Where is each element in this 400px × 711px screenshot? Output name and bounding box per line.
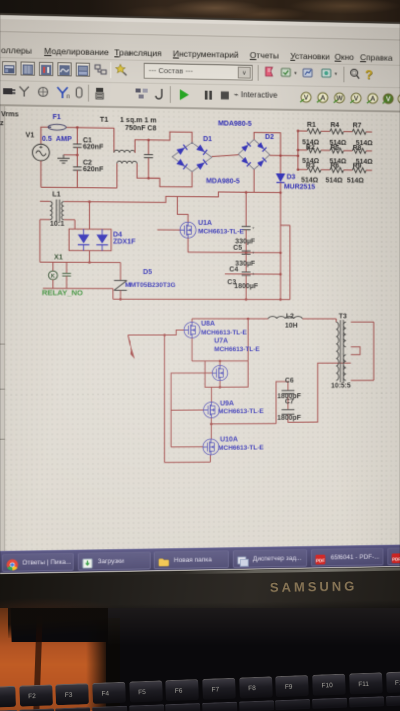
T1 primary coil — [114, 150, 135, 153]
wire left gate bus — [163, 335, 165, 463]
rail: rectifier output to U1A section — [64, 190, 281, 203]
svg-text:R8: R8 — [353, 144, 362, 152]
L1 right winding — [62, 201, 64, 219]
svg-text:R7: R7 — [353, 121, 362, 129]
svg-text:MDA980-5: MDA980-5 — [218, 120, 252, 128]
svg-text:D5: D5 — [143, 268, 152, 276]
svg-text:Hz: Hz — [0, 119, 4, 127]
wire fuse to T1 rail — [66, 126, 114, 129]
L1 core line 2 — [59, 199, 61, 221]
wire T3 center tap — [351, 347, 360, 355]
svg-text:ZDX1F: ZDX1F — [113, 238, 136, 246]
svg-text:R4: R4 — [330, 121, 339, 129]
wire lower row — [225, 273, 281, 275]
bridge rectifier D1 MDA980-5 — [172, 142, 212, 172]
svg-text:MCH6613-TL-E: MCH6613-TL-E — [218, 445, 264, 452]
mosfet U1A — [180, 222, 196, 238]
diode D2 sw — [241, 157, 251, 166]
wire D2 bottom down — [253, 170, 255, 193]
svg-text:10:5:5: 10:5:5 — [331, 382, 351, 390]
svg-text:A: A — [370, 95, 375, 103]
T3 left winding — [336, 322, 339, 380]
bridge rectifier D2 MDA980-5 — [238, 139, 269, 169]
svg-text:D2: D2 — [265, 133, 274, 141]
diode D1 sw — [176, 159, 187, 169]
wire T3 right bottom lead — [351, 379, 374, 381]
junction D3 column — [279, 154, 282, 157]
wire T3 right vertical — [373, 322, 375, 380]
orange background behind laptop (bottom-left) — [0, 608, 106, 711]
capacitor C1 — [76, 128, 78, 145]
svg-text:n: n — [67, 93, 70, 100]
T1 secondary coil — [117, 161, 137, 164]
svg-text:V1: V1 — [25, 131, 34, 139]
wire D4 bottom pin — [88, 251, 90, 263]
wire right drop to U7A loop — [247, 319, 249, 361]
svg-text:MCH6613-TL-E: MCH6613-TL-E — [218, 408, 264, 415]
electrolytic capacitor C5 330uF — [242, 250, 251, 252]
wire V1 bottom stem — [40, 161, 42, 187]
diode D2 nw — [241, 142, 251, 151]
current arrow probe — [128, 335, 132, 355]
screen top edge dark line + light strip — [0, 13, 400, 24]
toolbar row 1 — [2, 61, 16, 75]
svg-text:MDA980-5: MDA980-5 — [206, 177, 240, 185]
wire L1 bottom-left stub — [40, 218, 50, 220]
wire mid row — [188, 251, 281, 254]
svg-text:620nF: 620nF — [83, 166, 104, 174]
mosfet U8A — [184, 322, 200, 338]
wire gate bus 2 — [170, 373, 172, 447]
svg-text:C7: C7 — [285, 398, 294, 406]
wire right cap rail — [281, 224, 290, 226]
svg-text:A: A — [320, 94, 325, 102]
capacitor C7 1800pF — [282, 409, 295, 411]
wire T1 primary left — [113, 128, 115, 152]
relay X1 contact — [66, 262, 68, 273]
dark background above screen — [0, 0, 400, 30]
voltage source V1 — [32, 144, 49, 161]
svg-text:K: K — [51, 274, 55, 280]
screen — [0, 13, 400, 574]
svg-text:R3: R3 — [306, 162, 315, 170]
svg-text:V: V — [354, 95, 359, 103]
wire U1A drain jog — [177, 197, 188, 223]
svg-text:L1: L1 — [52, 190, 60, 198]
svg-text:1800µF: 1800µF — [234, 282, 258, 290]
svg-text:PDF: PDF — [316, 558, 325, 563]
svg-text:U7A: U7A — [214, 337, 228, 345]
L1 left winding — [50, 201, 52, 219]
svg-text:V: V — [386, 95, 391, 103]
svg-text:MCH6613-TL-E: MCH6613-TL-E — [201, 329, 247, 336]
sidac D5 MMT05B230T3G — [120, 263, 122, 281]
diode D1 se — [196, 159, 207, 169]
wire relay bottom rail — [43, 287, 113, 289]
L1 core line 1 — [55, 199, 57, 221]
svg-text:514Ω: 514Ω — [326, 176, 343, 184]
svg-text:10H: 10H — [285, 322, 298, 330]
capacitor C6 1800pF — [276, 382, 288, 424]
svg-text:514Ω: 514Ω — [347, 177, 364, 185]
schematic sheet — [0, 106, 400, 553]
diode D1 ne — [196, 144, 207, 154]
svg-text:U10A: U10A — [220, 435, 238, 443]
svg-text:MCH6613-TL-E: MCH6613-TL-E — [214, 346, 260, 353]
wire to C6/C7 — [211, 423, 276, 425]
svg-text:10:1: 10:1 — [50, 220, 64, 228]
svg-text:V: V — [304, 94, 309, 102]
svg-text:X1: X1 — [54, 253, 63, 261]
svg-text:620nF: 620nF — [83, 143, 104, 151]
mosfet U7A — [212, 365, 227, 380]
svg-text:R2: R2 — [306, 143, 315, 151]
svg-text:C4: C4 — [229, 265, 238, 273]
T3 core 2 — [342, 320, 344, 382]
svg-text:+: + — [252, 250, 255, 256]
diode D2 ne — [257, 142, 267, 151]
svg-text:1800pF: 1800pF — [277, 414, 301, 422]
T3 right top winding — [343, 322, 346, 347]
svg-text:Vrms: Vrms — [1, 110, 19, 118]
svg-text:U8A: U8A — [201, 320, 215, 328]
wire main bottom rail — [113, 298, 290, 300]
diode D3 MUR2515 — [276, 173, 285, 182]
svg-text:330µF: 330µF — [235, 260, 256, 268]
wire T1 sec left down — [116, 163, 118, 188]
svg-text:R6: R6 — [330, 162, 339, 170]
electrolytic capacitor C3 1800uF — [242, 271, 251, 273]
wire U10A gate row — [171, 446, 203, 448]
svg-text:PDF: PDF — [392, 556, 400, 561]
menu bar — [1, 45, 32, 56]
diode D2 se — [257, 158, 267, 167]
wire U7A drain stub — [219, 361, 221, 365]
svg-text:MMT05B230T3G: MMT05B230T3G — [125, 282, 176, 289]
svg-text:C6: C6 — [285, 377, 294, 385]
wire T1 to bridge D1 — [135, 131, 192, 153]
relay rail — [40, 261, 121, 263]
wire U9A to U10A — [210, 418, 212, 439]
wire bottom rail V1-T1 — [41, 186, 117, 189]
svg-text:RELAY_NO: RELAY_NO — [42, 288, 83, 297]
wire T1 sec to bridge D1 bottom — [137, 164, 192, 187]
wire D1 right to D2 left — [212, 155, 239, 157]
relay X1 coil — [52, 262, 54, 271]
capacitor C2 — [76, 155, 78, 167]
wire D3 column down — [280, 183, 282, 300]
transformer T3 — [335, 319, 337, 322]
lower inverter rail with L2 — [192, 318, 268, 320]
svg-text:T3: T3 — [339, 312, 347, 320]
resistor row 2 — [298, 149, 307, 151]
wire L1 left down to relay rail — [39, 219, 41, 262]
ground — [64, 154, 78, 156]
resistor row 1 — [298, 130, 307, 132]
node fuse/C1 — [76, 126, 79, 129]
wire U9A gate row — [171, 409, 203, 411]
svg-text:W: W — [336, 94, 343, 102]
svg-text:R5: R5 — [330, 144, 339, 152]
svg-text:+: + — [252, 272, 255, 278]
T3 right bottom winding — [343, 355, 346, 381]
keyboard deck — [0, 608, 400, 711]
toolbar row 2 — [2, 84, 16, 103]
lighting overlays — [0, 13, 400, 574]
svg-text:F1: F1 — [53, 113, 61, 121]
mosfet U10A — [203, 439, 219, 455]
wire D2 right to resistor bank — [270, 154, 298, 156]
wire D2 top to D3 column — [254, 132, 281, 174]
wire U8A source down — [191, 338, 193, 361]
wire L1 to D4 box — [74, 220, 76, 229]
wire U8A gate row — [128, 330, 184, 335]
wire U10A source stub — [209, 455, 211, 462]
diode D1 nw — [176, 145, 187, 155]
svg-text:1 sq.m 1 m: 1 sq.m 1 m — [120, 116, 157, 124]
svg-text:C5: C5 — [233, 244, 242, 252]
fuse F1 — [48, 124, 66, 130]
inductor L2 10H — [268, 316, 302, 318]
wire U8A drain stub — [191, 319, 193, 322]
svg-text:R9: R9 — [353, 162, 362, 170]
wire U1A gate — [157, 229, 180, 231]
wire U7A source stub — [219, 381, 221, 388]
wire D4 top pin — [88, 202, 90, 229]
svg-text:U1A: U1A — [198, 219, 212, 227]
electrolytic capacitor 330uF (top) — [245, 192, 247, 226]
wire U9A drain — [210, 387, 212, 402]
wire T3 right top lead — [351, 321, 374, 323]
svg-text:750nF C8: 750nF C8 — [125, 124, 156, 132]
wire U7A gate row — [171, 372, 212, 374]
svg-text:0.5_AMP: 0.5_AMP — [42, 135, 72, 143]
svg-text:R1: R1 — [307, 121, 316, 129]
U7A loop rectangle — [192, 360, 248, 362]
bezel below screen — [0, 567, 400, 620]
svg-text:+: + — [252, 226, 255, 232]
svg-text:MCH6613-TL-E: MCH6613-TL-E — [198, 228, 244, 235]
svg-text:U9A: U9A — [220, 399, 234, 407]
wire L1 top-left stub — [40, 200, 50, 202]
wire resistor left rail — [297, 131, 299, 170]
node C1/C2/gnd — [76, 154, 79, 157]
T3 core 1 — [339, 320, 341, 382]
resistor row 3 — [298, 169, 307, 171]
wire step down — [112, 289, 114, 300]
svg-text:L2: L2 — [286, 312, 294, 320]
capacitor C8 — [147, 140, 149, 154]
wire: V1 top stem and fuse row — [41, 127, 48, 144]
svg-text:D1: D1 — [203, 135, 212, 143]
wire U1A source — [187, 238, 189, 252]
zener pair D4 ZDX1F — [69, 229, 111, 251]
svg-text:T1: T1 — [100, 116, 108, 124]
svg-text:D3: D3 — [287, 173, 296, 181]
svg-text:MUR2515: MUR2515 — [284, 183, 315, 191]
wire L1 bottom-right stub — [64, 219, 75, 221]
wire bottom bus — [164, 461, 210, 463]
